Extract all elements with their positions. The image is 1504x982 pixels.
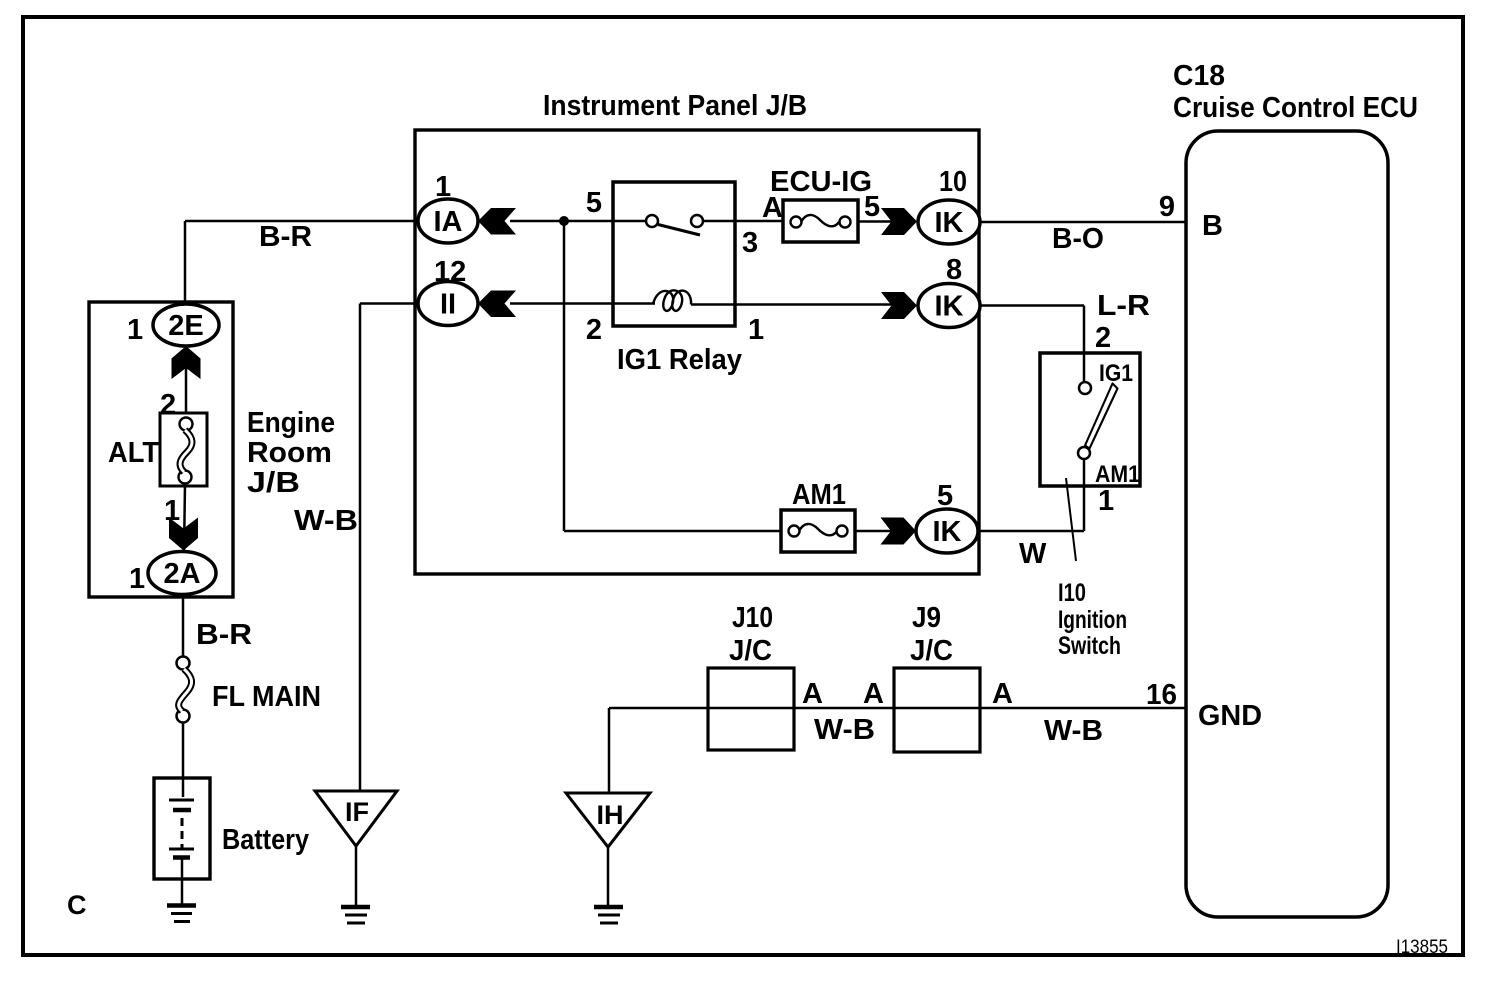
relay contact circle right (691, 215, 703, 227)
svg-text:ALT: ALT (108, 437, 159, 469)
svg-text:B-R: B-R (259, 221, 312, 253)
svg-text:Ignition: Ignition (1058, 606, 1127, 634)
svg-text:Room: Room (247, 437, 332, 469)
svg-text:AM1: AM1 (792, 479, 846, 511)
svg-text:J/B: J/B (247, 467, 300, 499)
svg-text:2E: 2E (168, 310, 203, 342)
svg-text:II: II (440, 289, 456, 321)
svg-text:2: 2 (586, 314, 602, 346)
ground IF triangle (315, 791, 397, 846)
svg-text:8: 8 (946, 254, 962, 286)
svg-text:W-B: W-B (814, 714, 875, 746)
fuse AM1 (781, 510, 855, 552)
svg-text:AM1: AM1 (1095, 461, 1140, 488)
svg-text:GND: GND (1198, 700, 1262, 732)
svg-text:C18: C18 (1173, 60, 1225, 92)
connector IK pin 8 (918, 284, 980, 328)
svg-text:J/C: J/C (910, 635, 953, 667)
relay contact circle left (646, 215, 658, 227)
svg-text:Instrument Panel J/B: Instrument Panel J/B (543, 90, 807, 122)
svg-text:IK: IK (935, 207, 964, 239)
svg-text:J10: J10 (732, 602, 773, 634)
leader line to I10 label (1066, 478, 1076, 561)
svg-text:IF: IF (345, 797, 369, 827)
svg-text:A: A (992, 678, 1013, 710)
wire W-B ground bus (609, 707, 1186, 710)
ground (battery) (167, 903, 196, 908)
connector arrow into 2A (169, 518, 198, 551)
wire from IA arrow to relay pin 5 (510, 220, 613, 223)
svg-text:I10: I10 (1058, 579, 1086, 607)
svg-text:W-B: W-B (294, 505, 358, 537)
connector II (418, 282, 478, 326)
wire ALT fuse to 2A (184, 484, 185, 552)
relay contact blade (658, 225, 700, 236)
wire IH riser (608, 708, 611, 794)
svg-text:1: 1 (748, 314, 764, 346)
svg-text:B-O: B-O (1052, 223, 1104, 255)
junction connector J9 (894, 668, 980, 752)
wire B-R vertical down to 2E (184, 221, 187, 305)
svg-text:IG1: IG1 (1099, 360, 1133, 387)
wire relay pin 2 to II arrow (510, 302, 613, 305)
svg-text:1: 1 (1098, 485, 1114, 517)
ignition switch blade (1085, 384, 1118, 449)
svg-text:1: 1 (129, 563, 145, 595)
svg-text:10: 10 (939, 166, 967, 198)
wire junction down to AM1 row (563, 221, 566, 531)
svg-text:2A: 2A (163, 558, 200, 590)
svg-text:5: 5 (586, 187, 602, 219)
wire B-O from IK10 to ECU pin 9 (980, 221, 1186, 224)
svg-text:IK: IK (935, 291, 964, 323)
connector IK pin 5 (916, 509, 978, 553)
svg-text:C: C (67, 890, 87, 920)
connector arrow into 2E (172, 346, 201, 379)
wire 2A to FL MAIN (182, 594, 185, 657)
fuse ALT (160, 413, 207, 486)
svg-text:IA: IA (434, 206, 463, 238)
svg-text:I13855: I13855 (1396, 937, 1448, 958)
svg-text:Battery: Battery (222, 824, 309, 856)
wire 2E to ALT fuse (185, 346, 188, 418)
relay contact wire (613, 220, 646, 223)
wire W to IK5 (978, 530, 1084, 533)
svg-text:J9: J9 (912, 602, 941, 634)
wire AM1 fuse to IK5 arrow (855, 530, 893, 533)
svg-text:IH: IH (597, 800, 624, 830)
junction connector J10 (708, 668, 794, 750)
connector arrow into IK pin 5 (881, 518, 917, 545)
svg-text:Cruise Control ECU: Cruise Control ECU (1173, 92, 1418, 124)
relay IG1 box (613, 182, 735, 326)
svg-text:J/C: J/C (729, 635, 772, 667)
junction node dot (559, 216, 569, 226)
wire relay pin3 to ECU-IG fuse (735, 220, 790, 223)
svg-text:5: 5 (864, 191, 880, 223)
svg-text:A: A (762, 192, 783, 224)
connector IK pin 10 (918, 200, 980, 244)
ECU C18 Cruise Control ECU box (1186, 131, 1388, 917)
connector arrow into II (478, 291, 516, 318)
ground IH triangle (566, 793, 650, 847)
svg-text:B-R: B-R (196, 619, 252, 651)
wire relay pin1 to IK8 arrow (735, 303, 895, 306)
wire FL MAIN to battery (182, 723, 185, 797)
svg-text:Switch: Switch (1058, 632, 1121, 660)
svg-text:L-R: L-R (1097, 290, 1150, 322)
wire AM1 terminal down (1083, 459, 1086, 531)
svg-text:3: 3 (742, 227, 758, 259)
svg-text:FL MAIN: FL MAIN (212, 681, 321, 713)
fuse ECU-IG (783, 200, 858, 242)
svg-text:9: 9 (1159, 191, 1175, 223)
svg-text:W-B: W-B (1044, 715, 1103, 747)
connector 2A (148, 552, 216, 595)
ground symbol IH (594, 905, 623, 910)
svg-text:5: 5 (937, 480, 953, 512)
connector arrow into IK pin 10 (881, 208, 917, 235)
connector 2E (153, 304, 219, 346)
junction block: Instrument Panel J/B box (415, 130, 979, 574)
connector arrow into IA (478, 208, 516, 235)
svg-text:1: 1 (127, 314, 143, 346)
svg-text:IK: IK (933, 516, 962, 548)
relay coil (653, 290, 691, 311)
wire L-R from IK8 to ignition switch (980, 304, 1084, 307)
wire W-B from II to left (360, 302, 418, 305)
svg-text:A: A (802, 678, 823, 710)
svg-text:Engine: Engine (247, 407, 335, 439)
svg-text:2: 2 (1095, 322, 1111, 354)
wire B-R horizontal from IA to left (185, 220, 418, 223)
svg-text:B: B (1202, 210, 1223, 242)
relay coil wire (613, 302, 655, 305)
wire to AM1 fuse (564, 530, 781, 533)
wire IF to ground (355, 846, 358, 906)
svg-text:A: A (863, 678, 884, 710)
svg-text:ECU-IG: ECU-IG (770, 166, 872, 198)
junction block: Engine Room J/B box (89, 302, 233, 597)
svg-text:16: 16 (1146, 679, 1177, 711)
wire IH to ground (607, 847, 610, 906)
wire ECU-IG fuse to IK arrow (858, 220, 895, 223)
ignition switch IG1 terminal (1079, 382, 1091, 394)
svg-text:IG1 Relay: IG1 Relay (617, 344, 742, 376)
wire W-B vertical down to IF ground (359, 304, 362, 793)
ground symbol IF (341, 905, 370, 910)
connector IA (418, 199, 478, 243)
connector arrow into IK pin 8 (881, 292, 917, 319)
battery (154, 778, 210, 879)
wire battery to ground (181, 857, 184, 905)
switch I10 ignition switch box (1040, 353, 1140, 486)
ignition switch AM1 terminal (1078, 447, 1090, 459)
fusible link FL MAIN (177, 657, 190, 670)
svg-text:W: W (1019, 538, 1047, 570)
